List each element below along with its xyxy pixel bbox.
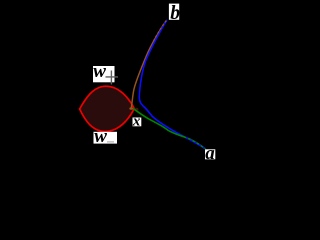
svg-text:b: b xyxy=(170,3,180,24)
interleave: blue dashes over green tail xyxy=(186,138,205,149)
curve from b to x (brown) xyxy=(131,21,166,108)
bubble loop (red contour, dark fill) xyxy=(80,86,135,131)
label a box xyxy=(205,149,215,159)
geodesic from b to a (blue) xyxy=(139,20,205,148)
svg-text:w: w xyxy=(93,61,106,82)
label w+ plus sign xyxy=(106,71,119,85)
dark marker dot at x xyxy=(134,108,138,111)
label x box xyxy=(133,118,142,127)
label b box xyxy=(169,4,179,20)
label w- minus sign xyxy=(107,141,114,143)
svg-text:a: a xyxy=(205,143,215,164)
interleave: brown dashes over blue top xyxy=(154,21,167,41)
svg-text:w: w xyxy=(94,126,107,147)
label w+ box xyxy=(93,66,115,82)
svg-text:x: x xyxy=(132,114,141,130)
brown endpoint blob at x xyxy=(129,107,133,110)
label w- box xyxy=(94,132,118,144)
curve from x to a (green) xyxy=(134,109,205,149)
